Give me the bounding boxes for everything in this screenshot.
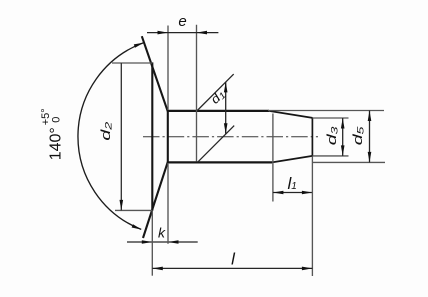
arc arrow bottom (tip touching bottom slant, pointing right-down)	[132, 224, 142, 229]
svg-text:e: e	[178, 13, 186, 30]
shank top outline	[167, 110, 269, 112]
shank top taper to end	[269, 111, 313, 118]
l1 arrow left (tip at 272.9 pointing left)	[273, 191, 284, 195]
e arrow right (tip at x=196.5 pointing left)	[197, 31, 208, 35]
svg-text:k: k	[158, 224, 166, 240]
e arrow left (tip at x=168 pointing right)	[158, 31, 169, 35]
k arrow left (tip at face x=152.3 pointing right)	[142, 240, 153, 244]
k arrow right (tip at junction x=168 pointing left)	[168, 240, 179, 244]
d2 top extension line	[112, 62, 152, 64]
shank bottom taper to end	[272, 156, 313, 163]
head cone top slant (extended for angle dim)	[142, 36, 168, 111]
d1 arrow bottom (tip down)	[224, 123, 228, 134]
e dimension line with outside arrows	[147, 32, 218, 34]
d3 arrow bottom	[341, 145, 345, 156]
shank end face	[311, 118, 313, 157]
k dimension line	[127, 241, 198, 243]
head cone bottom slant (extended for angle dim)	[143, 162, 168, 238]
d5 arrow bottom	[368, 152, 372, 163]
d1 oblique extension line upper	[197, 74, 233, 110]
d1 oblique extension line lower	[198, 126, 235, 163]
l left extension line (head face extended down)	[151, 211, 153, 276]
140deg angle dimension arc	[78, 43, 144, 230]
shank bottom outline	[167, 161, 272, 163]
d3 dimension line with outward arrows	[342, 118, 344, 156]
d3 top extension line	[312, 117, 348, 119]
angle text 140deg with tolerance +5/0 (rotated -90)	[40, 108, 65, 160]
head/shank junction edge (thick)	[167, 110, 169, 163]
d5 label (rotated -90)	[350, 126, 366, 145]
d3 bottom extension line	[312, 155, 348, 157]
d2 dimension line	[120, 63, 122, 210]
l1 left extension line (taper start)	[272, 114, 274, 202]
d5 bottom extension line	[312, 161, 385, 163]
arc arrow top (tip touching top slant, pointing right-up)	[134, 43, 144, 48]
d1 label (rotated -45)	[208, 87, 229, 108]
l dimension line with arrows pointing outward	[152, 267, 312, 269]
e dimension: left extension line (junction extended up)	[167, 26, 169, 111]
d1 dimension line vertical with outward arrows	[225, 82, 227, 134]
l1 dimension line with inward arrows pointing outward	[273, 192, 313, 194]
d2 bottom extension line	[115, 209, 152, 211]
centerline (axis)	[143, 136, 318, 138]
l1 arrow right (tip at 312.4 pointing right)	[302, 191, 313, 195]
l arrow left (tip at 152.3 pointing left)	[152, 267, 163, 271]
e dimension: right extension line	[196, 25, 198, 162]
junction extension line down to k	[167, 163, 169, 244]
l right extension line (end face extended down)	[311, 156, 313, 276]
d2 label (rotated -90)	[98, 122, 114, 141]
d5 top extension line	[268, 110, 384, 112]
d1 arrow top (tip up)	[224, 82, 228, 93]
rivet head face (thick outline)	[151, 62, 153, 210]
svg-text:140°: 140°	[47, 127, 64, 160]
l arrow right (tip at 312.4 pointing right)	[302, 267, 313, 271]
d5 dimension line with outward arrows	[369, 111, 371, 163]
d2 arrow bottom (tip down)	[120, 200, 124, 211]
d5 arrow top	[368, 111, 372, 122]
d3 arrow top	[341, 118, 345, 129]
d3 label (rotated -90)	[324, 126, 340, 145]
svg-text:0: 0	[50, 117, 62, 123]
